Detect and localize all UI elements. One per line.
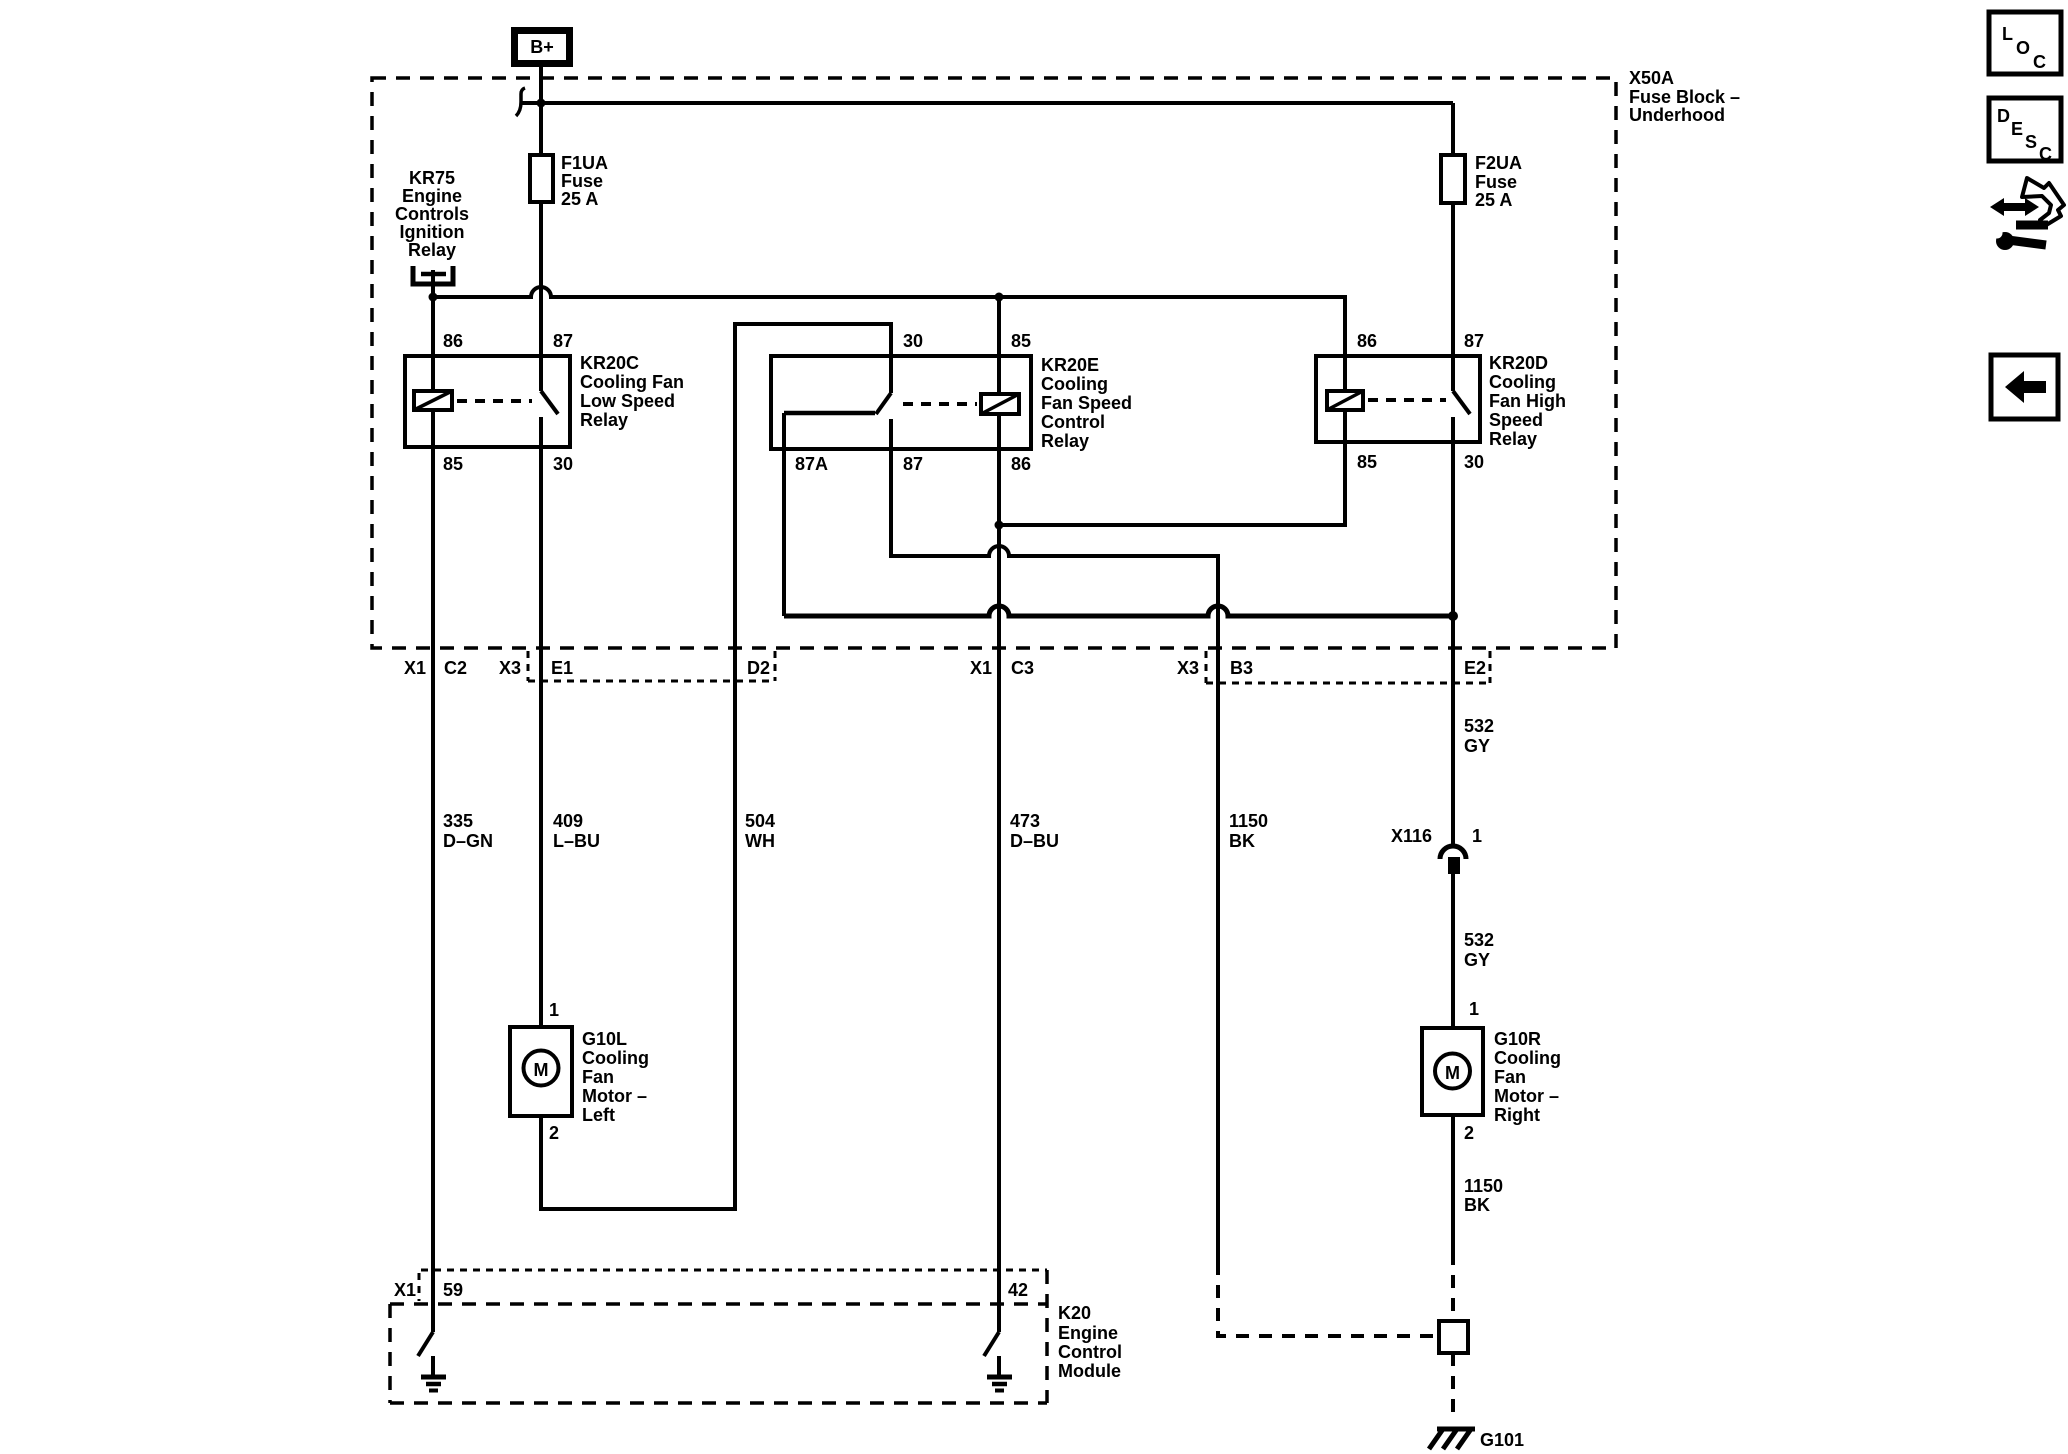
- svg-text:X1: X1: [970, 658, 992, 678]
- wire B+ to fuse F1UA: [539, 67, 543, 155]
- svg-text:Relay: Relay: [408, 240, 456, 260]
- svg-text:86: 86: [443, 331, 463, 351]
- svg-text:Module: Module: [1058, 1361, 1121, 1381]
- wire top bus B+ feed: [521, 101, 1453, 105]
- svg-text:C: C: [2039, 144, 2052, 164]
- svg-text:473: 473: [1010, 811, 1040, 831]
- svg-text:BK: BK: [1464, 1195, 1490, 1215]
- svg-text:25 A: 25 A: [561, 189, 598, 209]
- svg-text:KR20D: KR20D: [1489, 353, 1548, 373]
- wire hook tap symbol: [516, 88, 525, 116]
- svg-text:1150: 1150: [1229, 811, 1268, 831]
- svg-text:K20: K20: [1058, 1303, 1091, 1323]
- svg-text:B3: B3: [1230, 658, 1253, 678]
- fuse F1UA: [530, 153, 608, 209]
- svg-text:Cooling: Cooling: [1494, 1048, 1561, 1068]
- svg-text:O: O: [2016, 38, 2030, 58]
- wire 504 WH : G10L pin 2 to KR20E pin 30: [541, 324, 891, 1209]
- relay KR20D box: [1316, 356, 1480, 442]
- wire KR20C pin 86 coil path / 335 D-GN to ECM pin 59: [431, 297, 435, 1332]
- svg-text:C2: C2: [444, 658, 467, 678]
- svg-text:Speed: Speed: [1489, 410, 1543, 430]
- svg-text:M: M: [534, 1060, 549, 1080]
- svg-text:532: 532: [1464, 716, 1494, 736]
- relay KR20E coil: [981, 394, 1019, 414]
- ground splice square: [1439, 1321, 1468, 1353]
- svg-text:X3: X3: [499, 658, 521, 678]
- svg-text:KR20E: KR20E: [1041, 355, 1099, 375]
- relay KR20C coil: [414, 391, 452, 410]
- svg-text:504: 504: [745, 811, 775, 831]
- svg-text:GY: GY: [1464, 736, 1490, 756]
- relay KR20E box: [771, 356, 1031, 449]
- relay KR20D link dashes: [1368, 398, 1446, 402]
- fuse F2UA: [1441, 153, 1522, 210]
- wire KR20D pin 85 to KR20E pin 86: [999, 410, 1345, 525]
- svg-text:532: 532: [1464, 930, 1494, 950]
- wire 87A to KR20D pin 30 junction (thick): [784, 606, 1453, 616]
- junction dot KR20E coil tap: [995, 293, 1004, 302]
- wire dashed square to G101: [1451, 1353, 1455, 1421]
- junction dot KR20E pin 86 to KR20D pin 85: [995, 521, 1004, 530]
- svg-text:C: C: [2033, 52, 2046, 72]
- wire KR20E pin 87A down: [782, 413, 786, 616]
- wire KR20D pin 30 / 532 GY to X116: [1451, 417, 1455, 846]
- svg-text:Controls: Controls: [395, 204, 469, 224]
- svg-text:Motor –: Motor –: [582, 1086, 647, 1106]
- label X50A Fuse Block Underhood: [1629, 68, 1740, 125]
- svg-text:85: 85: [1011, 331, 1031, 351]
- svg-text:Fan High: Fan High: [1489, 391, 1566, 411]
- icon LOC button: [1989, 12, 2061, 74]
- svg-text:M: M: [1445, 1063, 1460, 1083]
- label KR20D Cooling Fan High Speed Relay: [1489, 353, 1566, 449]
- svg-text:Fan: Fan: [1494, 1067, 1526, 1087]
- svg-text:G10L: G10L: [582, 1029, 627, 1049]
- svg-text:25 A: 25 A: [1475, 190, 1512, 210]
- svg-text:335: 335: [443, 811, 473, 831]
- ground G101 chassis symbol: [1429, 1429, 1524, 1450]
- svg-text:F1UA: F1UA: [561, 153, 608, 173]
- svg-text:87: 87: [553, 331, 573, 351]
- svg-text:86: 86: [1357, 331, 1377, 351]
- svg-text:E1: E1: [551, 658, 573, 678]
- svg-text:E2: E2: [1464, 658, 1486, 678]
- svg-text:59: 59: [443, 1280, 463, 1300]
- svg-text:GY: GY: [1464, 950, 1490, 970]
- svg-text:Fan: Fan: [582, 1067, 614, 1087]
- svg-text:Engine: Engine: [1058, 1323, 1118, 1343]
- svg-text:D–GN: D–GN: [443, 831, 493, 851]
- wire F2UA to KR20D pin 87: [1451, 202, 1455, 391]
- icon DESC button: [1989, 98, 2061, 164]
- svg-text:85: 85: [443, 454, 463, 474]
- ground ECM pin 59: [418, 1332, 446, 1391]
- inline connector X116: [1391, 826, 1482, 874]
- svg-text:X1: X1: [404, 658, 426, 678]
- svg-text:86: 86: [1011, 454, 1031, 474]
- wire KR20C pin 30 / 409 L-BU to G10L pin 1: [539, 417, 543, 1027]
- svg-text:Motor –: Motor –: [1494, 1086, 1559, 1106]
- icon repair arrow and wrench: [1990, 178, 2064, 250]
- svg-text:B+: B+: [530, 37, 554, 57]
- connector X3 sub-box left: [528, 651, 775, 681]
- junction dot B+ bus: [537, 99, 546, 108]
- label KR20C Cooling Fan Low Speed Relay: [580, 353, 684, 430]
- svg-text:S: S: [2025, 132, 2037, 152]
- svg-text:Engine: Engine: [402, 186, 462, 206]
- svg-text:Relay: Relay: [580, 410, 628, 430]
- svg-text:D: D: [1997, 106, 2010, 126]
- svg-text:L: L: [2002, 24, 2013, 44]
- svg-text:D–BU: D–BU: [1010, 831, 1059, 851]
- relay KR20E switch blade: [876, 393, 891, 414]
- module K20 ECM dashed box: [421, 1269, 1047, 1272]
- svg-text:Relay: Relay: [1489, 429, 1537, 449]
- wire X116 to G10R pin 1: [1451, 873, 1455, 1028]
- ground ECM pin 42: [984, 1332, 1012, 1391]
- svg-text:Cooling Fan: Cooling Fan: [580, 372, 684, 392]
- relay KR20D switch blade: [1453, 391, 1470, 414]
- wire KR20E pin 85 coil / 473 D-BU to ECM pin 42: [997, 297, 1001, 1332]
- svg-text:409: 409: [553, 811, 583, 831]
- svg-text:Fuse: Fuse: [1475, 172, 1517, 192]
- junction dot 87A/30/E2: [1448, 611, 1458, 621]
- svg-text:Cooling: Cooling: [582, 1048, 649, 1068]
- svg-text:30: 30: [903, 331, 923, 351]
- svg-text:Fan Speed: Fan Speed: [1041, 393, 1132, 413]
- svg-text:KR75: KR75: [409, 168, 455, 188]
- svg-text:1: 1: [1469, 999, 1479, 1019]
- svg-text:Fuse: Fuse: [561, 171, 603, 191]
- svg-text:BK: BK: [1229, 831, 1255, 851]
- motor G10L Cooling Fan Motor Left: [510, 1000, 649, 1143]
- svg-text:30: 30: [553, 454, 573, 474]
- relay KR20C switch blade: [541, 391, 558, 414]
- svg-text:Relay: Relay: [1041, 431, 1089, 451]
- svg-text:X1: X1: [394, 1280, 416, 1300]
- label KR20E Cooling Fan Speed Control Relay: [1041, 355, 1132, 451]
- wire KR75 coil bus: [433, 287, 1345, 391]
- svg-text:Cooling: Cooling: [1489, 372, 1556, 392]
- icon back arrow button: [1991, 355, 2058, 419]
- svg-text:X3: X3: [1177, 658, 1199, 678]
- junction dot KR75 bus left: [429, 293, 438, 302]
- relay KR20E link dashes: [903, 402, 977, 406]
- svg-text:Control: Control: [1041, 412, 1105, 432]
- relay KR20C box: [405, 356, 570, 447]
- wire G10R pin 2 1150 BK: [1451, 1115, 1455, 1252]
- svg-text:42: 42: [1008, 1280, 1028, 1300]
- wire F1UA to KR20C pin 87: [539, 202, 543, 391]
- svg-text:F2UA: F2UA: [1475, 153, 1522, 173]
- node B+: [515, 31, 570, 64]
- svg-text:Right: Right: [1494, 1105, 1540, 1125]
- svg-text:Low Speed: Low Speed: [580, 391, 675, 411]
- connector sub-box right B3/E2: [1206, 651, 1490, 683]
- relay KR20D coil: [1327, 391, 1363, 410]
- svg-text:Left: Left: [582, 1105, 615, 1125]
- svg-text:Control: Control: [1058, 1342, 1122, 1362]
- label K20 Engine Control Module: [1058, 1303, 1122, 1381]
- svg-text:C3: C3: [1011, 658, 1034, 678]
- wire bus to fuse F2UA: [1451, 103, 1455, 155]
- relay KR75 Engine Controls Ignition Relay: [395, 168, 469, 297]
- svg-text:Ignition: Ignition: [400, 222, 465, 242]
- svg-text:G10R: G10R: [1494, 1029, 1541, 1049]
- svg-text:87A: 87A: [795, 454, 828, 474]
- svg-text:85: 85: [1357, 452, 1377, 472]
- wire dashed to ground square: [1451, 1252, 1455, 1321]
- svg-text:KR20C: KR20C: [580, 353, 639, 373]
- svg-text:87: 87: [903, 454, 923, 474]
- svg-text:L–BU: L–BU: [553, 831, 600, 851]
- svg-text:1: 1: [549, 1000, 559, 1020]
- svg-text:D2: D2: [747, 658, 770, 678]
- motor G10R Cooling Fan Motor Right: [1422, 999, 1561, 1143]
- svg-text:2: 2: [1464, 1123, 1474, 1143]
- relay KR20E 87A contact bar: [784, 411, 875, 416]
- wire KR20E pin 87 to B3: [891, 419, 1218, 1262]
- relay KR20C link dashes: [457, 399, 532, 403]
- svg-text:G101: G101: [1480, 1430, 1524, 1450]
- svg-text:Underhood: Underhood: [1629, 105, 1725, 125]
- svg-text:X116: X116: [1391, 826, 1432, 846]
- svg-text:1: 1: [1472, 826, 1482, 846]
- svg-text:87: 87: [1464, 331, 1484, 351]
- svg-text:30: 30: [1464, 452, 1484, 472]
- svg-text:WH: WH: [745, 831, 775, 851]
- svg-text:Fuse Block –: Fuse Block –: [1629, 87, 1740, 107]
- fuse block X50A dashed boundary: [372, 78, 1616, 648]
- svg-text:X50A: X50A: [1629, 68, 1674, 88]
- wire B3 dashed to G101 square: [1218, 1262, 1437, 1336]
- svg-text:2: 2: [549, 1123, 559, 1143]
- svg-text:1150: 1150: [1464, 1176, 1503, 1196]
- svg-text:Cooling: Cooling: [1041, 374, 1108, 394]
- svg-text:E: E: [2011, 119, 2023, 139]
